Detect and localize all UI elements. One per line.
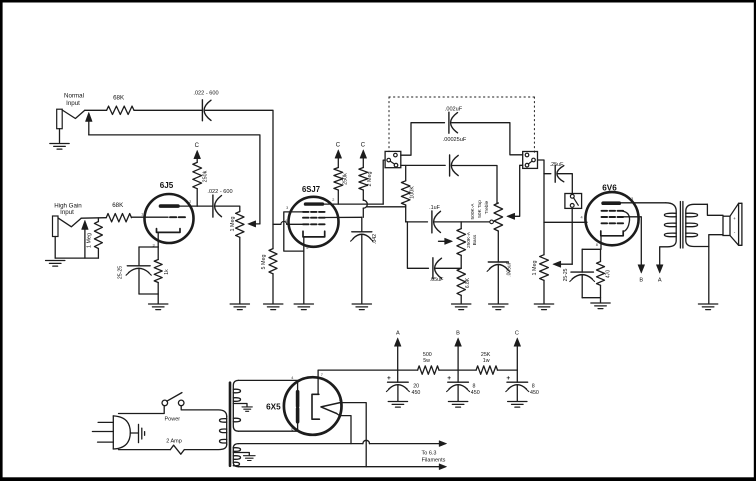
svg-text:6.8K: 6.8K [465,277,471,288]
chassis ground (line) [130,424,144,442]
capacitor C1 .022-600 [193,91,218,121]
potentiometer P3 bass 250K-A [457,222,478,256]
potentiometer P4 1 Meg (6V6 grid) [532,255,548,304]
resistor R11 470 cathode [597,249,612,297]
wire 6SJ7 plate [323,203,384,205]
filament line top with hop [239,440,447,446]
1 Meg wiper arrow [553,261,572,267]
jack J2 High Gain Input [53,202,83,258]
capacitor C10 .25uF coupling [538,160,573,255]
ground (cap A) [388,402,407,408]
svg-text:8: 8 [473,384,476,390]
svg-text:Filaments: Filaments [422,457,446,463]
svg-text:2 Meg: 2 Meg [367,172,373,187]
capacitor C7 .1uF [429,205,440,233]
svg-text:+: + [506,375,510,382]
svg-text:6: 6 [291,427,293,431]
svg-text:3: 3 [286,206,288,210]
filament line bottom [239,464,447,470]
wire cathode net bottom [582,298,600,303]
svg-text:5 Meg: 5 Meg [261,255,267,270]
switch SW1 (tone bypass left) [385,151,401,167]
ground (6J5 cathode) [149,304,168,310]
ground (1 Meg) [534,304,553,310]
svg-text:1: 1 [141,212,143,216]
tube U2 6SJ7 [289,185,339,247]
node C (screen supply) [360,143,367,159]
wire fuse to transformer [184,445,226,450]
svg-text:25-25: 25-25 [118,266,124,279]
ground (normal input jack) [50,144,69,150]
svg-text:25K: 25K [481,352,491,358]
svg-text:C: C [515,331,519,337]
wire plug to fuse [119,449,171,451]
svg-text:Input: Input [60,209,74,216]
wire C1 to 6SJ7 grid drop [205,110,273,248]
capacitor C9 .005uF [487,261,512,303]
tube U4 6X5 [266,377,341,435]
wire SW3 to 6V6 grid / 1Meg wiper [571,208,573,264]
resistor R5 1k cathode [154,247,170,294]
transformer T2 core [680,202,683,249]
wire 6V6 grid [544,221,587,223]
ground (6V6 cathode) [591,303,610,309]
capacitor C6 .00025uF [401,137,497,203]
node C supply [514,331,521,383]
wire 6SJ7 grid from C1 line [273,221,303,224]
capacitor C3 .022-600 coupling [207,189,232,217]
svg-text:C: C [336,143,341,149]
wire switch to transformer primary [181,406,227,417]
svg-text:4: 4 [285,219,287,223]
svg-text:1k: 1k [164,269,170,275]
wire shorting contact to volume wiper [89,135,260,224]
wire jack sleeve to 1Meg bottom [55,257,98,259]
svg-text:2 Amp: 2 Amp [166,439,182,445]
node B arrow down [638,265,645,284]
svg-text:Normal: Normal [64,93,84,100]
svg-text:470: 470 [606,270,612,279]
svg-text:450: 450 [412,390,421,396]
capacitor C5 .002uF [401,106,523,155]
wire heater lower to top filament line [337,413,352,443]
svg-text:.00025uF: .00025uF [443,137,467,143]
node A arrow down (OT primary) [656,265,663,284]
wire to node B [439,369,476,371]
svg-text:+: + [387,375,391,382]
ground (6SJ7 cathode) [294,304,313,310]
resistor R6 5 Meg grid leak [261,249,277,304]
svg-text:C: C [195,143,200,149]
svg-text:68K: 68K [113,95,125,102]
transformer T1 core [229,383,232,466]
resistor R1 68K [107,95,134,115]
resistor R13 25K 1w [476,352,497,375]
svg-text:450: 450 [471,390,480,396]
svg-text:7: 7 [321,373,323,377]
capacitor C11 25-25 cathode bypass [563,268,595,297]
svg-text:+: + [733,216,736,221]
wire C3 to volume pot [216,206,240,211]
svg-text:.005uF: .005uF [507,261,513,277]
wire 6SJ7 suppressor to cathode [284,212,304,251]
resistor R7 250k (6SJ7 plate load) [334,158,349,204]
svg-text:6X5: 6X5 [266,403,281,412]
jack J1 Normal Input [57,93,85,143]
treble pot tap circle [490,220,494,224]
svg-text:20: 20 [413,384,419,390]
potentiometer P2 treble 500K-A [470,200,502,231]
capacitor C14 8/450 [506,375,539,401]
wire treble bottom to .005 cap [497,231,499,262]
svg-text:450: 450 [530,390,539,396]
svg-text:.022 - 600: .022 - 600 [193,91,218,97]
wire bass bottom junction [460,255,462,268]
node C (6J5 supply) [194,143,201,159]
jack switch contact arrow (high gain) [82,220,89,258]
wire 68K to C1 [134,109,202,111]
svg-text:8: 8 [596,243,598,247]
ground (high gain jack) [46,261,65,267]
6V6 cathode network [582,236,601,272]
capacitor C4 .042 screen bypass [351,217,378,303]
ground (5 Meg) [264,304,283,310]
wire secondary to speaker [707,204,723,303]
wire tap line with .1uF [406,221,428,223]
switch SW3 [565,194,582,209]
svg-text:+: + [447,375,451,382]
svg-text:3: 3 [631,197,633,201]
svg-text:2: 2 [339,397,341,401]
wire HV bottom to 6X5 plate 2 [239,422,298,431]
filament center tap ground [233,453,255,461]
node C (6SJ7 plate supply) [335,143,342,159]
svg-text:Power: Power [165,417,181,423]
switch SW4 power [162,393,184,423]
svg-text:5w: 5w [423,358,430,364]
ground (.042 cap) [352,304,371,310]
wire HV top to 6X5 plate [239,380,298,391]
wire to node C [498,369,518,371]
svg-text:250K-A: 250K-A [466,231,472,248]
resistor R12 500 5w [418,352,439,375]
ground (volume pot) [230,304,249,310]
tube U1 6J5 [145,181,194,247]
resistor R4 250K plate load [193,158,209,206]
svg-text:.002uF: .002uF [445,106,463,112]
tube U3 6V6 [585,183,638,245]
potentiometer P1 1 Meg volume [230,212,244,304]
svg-text:68K: 68K [112,202,124,209]
svg-text:4: 4 [580,216,582,220]
ground (cap C) [508,402,527,408]
svg-text:500K-A: 500K-A [470,203,476,220]
bass wiper arrow [439,238,453,244]
treble wiper arrow [507,165,523,219]
svg-text:25-25: 25-25 [563,268,569,281]
svg-text:.25uF: .25uF [550,162,564,168]
resistor R10 6.8K [457,268,471,303]
transformer T1 primary winding [220,417,227,445]
svg-text:1w: 1w [483,358,490,364]
svg-text:50K Tap: 50K Tap [477,200,483,218]
svg-text:6SJ7: 6SJ7 [302,185,320,194]
svg-text:Treble: Treble [484,200,490,214]
node B supply [455,331,462,383]
svg-text:5: 5 [306,246,308,250]
resistor R3 68K [106,202,131,222]
wire 6X5 cathode to B+ rail [318,370,418,394]
svg-text:1 Meg: 1 Meg [87,233,93,248]
svg-text:6J5: 6J5 [160,181,174,190]
resistor R2 1 Meg grid leak [87,218,103,258]
transformer T2 output - primary [660,203,677,265]
ground (6.8K) [452,304,471,310]
wiper arrow of volume pot P1 [248,221,260,227]
svg-text:500: 500 [423,352,432,358]
svg-text:.022 - 600: .022 - 600 [207,189,232,195]
wire 6SJ7 screen [325,216,362,218]
label To 6.3 Filaments [422,450,446,463]
wire 6SJ7 cathode to ground [303,237,305,304]
wire screen junction to 100K [367,206,406,208]
wire plug to switch [119,406,165,414]
svg-text:4: 4 [291,376,293,380]
svg-text:A: A [396,331,400,337]
svg-text:250k: 250k [343,173,349,185]
capacitor C13 8/450 [447,375,480,401]
svg-text:To 6.3: To 6.3 [422,450,437,456]
svg-text:.05uF: .05uF [430,277,444,283]
svg-text:250k: 250k [203,170,209,182]
svg-text:100K: 100K [409,186,415,199]
svg-text:C: C [361,143,366,149]
capacitor C8 .05uF [406,222,462,283]
speaker LS1 [723,203,742,245]
svg-text:Bass: Bass [472,234,478,245]
wire heater upper to bottom filament line [340,403,366,467]
capacitor C12 20/450 [386,375,420,401]
wire 2Meg hop over plate wire [363,190,367,217]
svg-text:6V6: 6V6 [602,183,617,192]
fuse F1 2 Amp [166,439,184,455]
resistor R8 2 Meg screen [359,158,373,190]
svg-text:Input: Input [66,100,80,107]
wire 68K to 6J5 grid [132,216,169,218]
svg-text:1 Meg: 1 Meg [532,261,538,276]
capacitor C2 25-25 bypass [118,247,152,294]
svg-text:2: 2 [189,200,191,204]
wire SW1 to plate wire [383,160,385,204]
ground (cap B) [448,402,467,408]
wire 6J5 cathode rail [139,246,158,248]
6V6 plate wire [619,202,666,204]
resistor R9 100K [401,166,415,222]
wire jack to grid junction [81,217,106,220]
node A supply [394,331,401,383]
svg-text:1 Meg: 1 Meg [230,217,236,232]
6V6 screen to B [623,217,642,265]
jack switch contact arrow (normal) [85,112,92,135]
svg-text:8: 8 [532,384,535,390]
svg-text:.1uF: .1uF [429,205,440,211]
switch SW2 (tone bypass right) [523,152,538,169]
svg-text:.042: .042 [372,234,378,244]
ground (.005uF) [489,304,508,310]
wire normal jack to 68K [85,109,107,111]
border frame [0,0,756,3]
svg-text:B: B [456,331,460,337]
HV center tap ground [233,404,252,412]
svg-text:B: B [639,278,643,284]
dotted tone-bypass outline [389,97,534,153]
AC plug [92,416,130,449]
wire 6J5 plate [180,205,198,207]
transformer T1 filament winding [233,444,240,467]
wire plate to C3 [197,205,213,207]
svg-text:A: A [658,278,662,284]
wire cathode net bottom [139,294,158,304]
transformer T1 HV secondary [233,380,240,431]
svg-text:2: 2 [332,198,334,202]
6V6 beam plates [623,211,630,231]
ground (speaker) [698,304,717,310]
transformer T2 secondary [686,204,709,246]
